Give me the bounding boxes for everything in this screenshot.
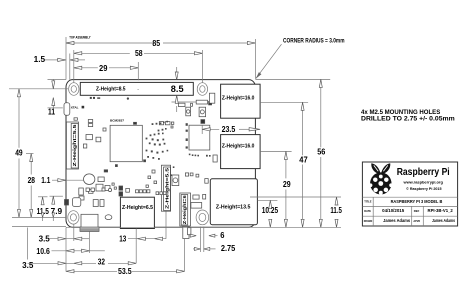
dim 49 left	[15, 89, 23, 218]
small components group C (center bottom region)	[136, 170, 209, 235]
dim 3.5 lower and 32	[22, 228, 136, 272]
mounting hole bottom-right	[196, 210, 209, 225]
left extension line hole-top	[9, 88, 68, 90]
right extension line ethernet centre	[257, 199, 277, 201]
bottom-left board-bottom line	[12, 226, 66, 228]
svg-text:APVD: APVD	[413, 219, 420, 223]
svg-text:CORNER RADIUS = 3.0mm: CORNER RADIUS = 3.0mm	[283, 37, 345, 44]
USB connector 2	[221, 135, 261, 169]
svg-text:James Adams: James Adams	[432, 218, 455, 223]
CSI camera connector	[161, 165, 170, 211]
LAN9514 chip	[189, 125, 210, 150]
svg-text:6: 6	[220, 231, 225, 240]
dim 11 left	[48, 79, 63, 116]
svg-text:28: 28	[28, 176, 36, 185]
dim 7.9 left-bottom	[50, 196, 63, 221]
mounting hole top-left	[69, 83, 79, 96]
svg-text:49: 49	[15, 148, 23, 157]
right extension line USB1 centre	[260, 101, 308, 103]
mounting hole top-right	[197, 83, 207, 96]
dim 6 (audio)	[190, 231, 225, 240]
HDMI connector	[120, 197, 154, 228]
svg-text:DRAWN: DRAWN	[364, 219, 373, 223]
dim 29 top	[74, 62, 139, 80]
svg-text:TITLE: TITLE	[364, 200, 371, 204]
right extension line board-top	[255, 78, 330, 80]
mounting hole bottom-left	[68, 211, 79, 224]
svg-text:32: 32	[98, 258, 106, 267]
svg-text:Z-Height=6.5: Z-Height=6.5	[122, 205, 153, 211]
svg-text:29: 29	[283, 180, 291, 189]
svg-text:Z-Height=16.0: Z-Height=16.0	[222, 143, 255, 149]
dim 10.25 right	[262, 200, 279, 227]
svg-text:29: 29	[99, 64, 108, 73]
svg-text:56: 56	[317, 148, 326, 157]
svg-text:Z-Height=13.5: Z-Height=13.5	[216, 204, 251, 210]
svg-text:23.5: 23.5	[222, 125, 236, 134]
svg-text:TOP ASSEMBLY: TOP ASSEMBLY	[69, 35, 91, 39]
svg-text:Raspberry Pi: Raspberry Pi	[397, 167, 450, 178]
svg-text:53.5: 53.5	[118, 267, 132, 276]
dim 11.5 left-bottom	[37, 197, 50, 221]
svg-text:10.25: 10.25	[262, 206, 279, 215]
svg-text:3.5: 3.5	[39, 235, 51, 244]
mounting holes note	[361, 109, 455, 123]
dim 1.1 left	[41, 176, 83, 185]
svg-text:47: 47	[299, 155, 308, 164]
title block labels	[364, 200, 421, 224]
small components group B (left mid)	[74, 118, 106, 148]
dim 47 right	[299, 102, 308, 227]
svg-text:XTAL: XTAL	[71, 106, 79, 110]
Ethernet connector	[210, 179, 257, 225]
USB connector 1	[221, 84, 261, 118]
right extension line y197	[250, 196, 341, 198]
svg-text:Z-Height=16.0: Z-Height=16.0	[222, 95, 255, 101]
bottom-left hole line	[12, 216, 66, 218]
dim 53.5	[66, 239, 185, 276]
Raspberry Pi logo berry	[369, 172, 393, 195]
corner radius note	[256, 37, 345, 78]
svg-text:58: 58	[135, 49, 143, 58]
dim 1.5 top-left	[34, 54, 85, 81]
SoC BCM2837	[110, 119, 142, 162]
svg-text:© Raspberry Pi 2015: © Raspberry Pi 2015	[406, 187, 441, 191]
svg-text:RASPBERRY PI 3 MODEL B: RASPBERRY PI 3 MODEL B	[391, 199, 443, 204]
dim 28 left	[26, 154, 35, 218]
dim 58 top	[74, 49, 203, 83]
left extension line board-top	[48, 78, 67, 80]
small component (right of LAN chip)	[213, 155, 217, 162]
title block frame	[362, 162, 457, 226]
small components group D (left bottom)	[72, 188, 112, 220]
XTAL component	[64, 103, 84, 115]
small components group F (mid band)	[65, 160, 146, 205]
dim 23.5	[202, 125, 260, 134]
Raspberry Pi logo leaves	[371, 163, 390, 174]
bottom edge extension	[66, 226, 341, 228]
svg-text:11: 11	[48, 107, 55, 116]
svg-text:RPI-3B-V1_2: RPI-3B-V1_2	[428, 208, 454, 213]
svg-text:James Adams: James Adams	[383, 218, 411, 223]
dim 85 top	[66, 37, 255, 80]
right extension line USB2 centre	[260, 150, 292, 152]
svg-text:13: 13	[119, 235, 126, 244]
GPIO header J8	[80, 82, 193, 95]
dim 3.5 upper	[39, 224, 89, 244]
svg-text:BCM2837: BCM2837	[110, 119, 124, 123]
dim 13	[119, 212, 166, 264]
svg-text:10.6: 10.6	[36, 247, 50, 256]
audio jack	[180, 193, 191, 239]
board outline	[66, 80, 255, 228]
svg-text:3.5: 3.5	[22, 261, 34, 270]
svg-text:04/10/2015: 04/10/2015	[382, 208, 405, 213]
svg-text:Z-Height=5.5: Z-Height=5.5	[165, 168, 171, 209]
svg-text:2.75: 2.75	[221, 244, 236, 253]
svg-text:8.5: 8.5	[171, 84, 184, 94]
svg-text:11.5: 11.5	[330, 206, 342, 215]
svg-text:1.1: 1.1	[41, 176, 50, 185]
micro-USB power connector	[80, 214, 99, 231]
svg-text:REF: REF	[414, 209, 420, 213]
small components group E (centre cluster)	[146, 121, 211, 177]
dim 56 right	[317, 79, 326, 227]
svg-text:Z-Height=6: Z-Height=6	[182, 195, 188, 224]
svg-text:www.raspberrypi.org: www.raspberrypi.org	[402, 180, 442, 184]
dim 29 right	[283, 151, 291, 227]
small components group A (below GPIO)	[90, 93, 215, 128]
svg-text:DATE: DATE	[364, 209, 371, 213]
svg-text:DRILLED TO 2.75 +/- 0.05mm: DRILLED TO 2.75 +/- 0.05mm	[361, 116, 455, 123]
leader 8.5 (GPIO height)	[175, 67, 178, 112]
svg-text:Z-Height=5.5: Z-Height=5.5	[72, 124, 78, 166]
svg-text:Z-Height=8.5: Z-Height=8.5	[96, 86, 126, 92]
svg-text:85: 85	[152, 39, 160, 48]
dim 2.75 drill	[193, 227, 236, 254]
dim 10.6	[36, 232, 104, 256]
dim 11.5 right	[330, 197, 342, 227]
DSI display connector	[66, 122, 78, 169]
svg-text:1.5: 1.5	[34, 55, 46, 64]
